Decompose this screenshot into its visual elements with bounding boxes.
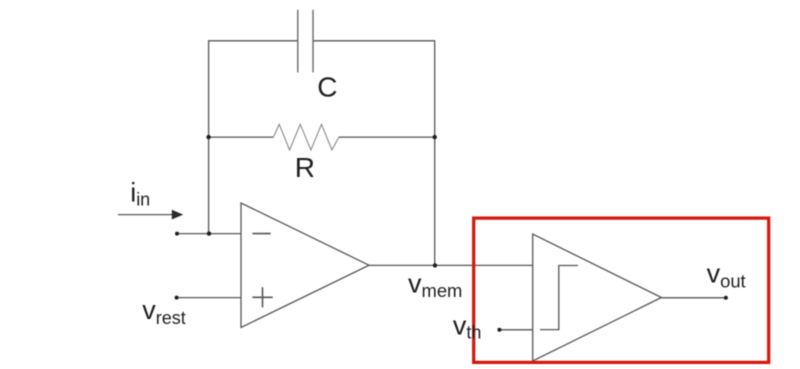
svg-text:vrest: vrest [142,295,186,328]
junction dot v_mem [433,263,437,267]
svg-text:R: R [295,152,315,183]
svg-text:vmem: vmem [408,269,462,302]
op-amp U1 [241,203,369,328]
highlight box (red) [474,218,769,362]
wire resistor left lead [209,136,274,138]
capacitor C plates [298,10,313,73]
resistor R zigzag [273,124,338,150]
op-amp minus symbol [252,233,270,235]
v_th terminal dot [497,328,501,332]
wire v_mem from op-amp to comparator [369,264,533,266]
wire top-left to capacitor [209,41,298,234]
input terminal dot [175,232,179,236]
svg-text:iin: iin [130,178,150,210]
wire capacitor to top-right corner [313,41,435,266]
junction dot inverting input [207,231,211,235]
svg-text:C: C [317,72,337,103]
wire v_th input [499,329,532,331]
op-amp plus symbol [252,287,272,307]
comparator step (hysteresis) symbol [540,266,578,330]
wire inverting input [177,233,241,235]
svg-text:vout: vout [707,259,746,292]
svg-text:vth: vth [453,310,482,342]
junction dot left feedback [206,135,210,139]
junction dot right feedback [433,135,437,139]
v_rest terminal dot [175,296,179,300]
wire i_in arrow line [118,214,174,216]
arrowhead of i_in [172,210,183,220]
comparator U2 [533,234,662,361]
wire v_out output [661,297,726,299]
v_out terminal dot [724,296,728,300]
wire resistor right lead [339,136,435,138]
wire v_rest to non-inverting input [177,297,241,299]
